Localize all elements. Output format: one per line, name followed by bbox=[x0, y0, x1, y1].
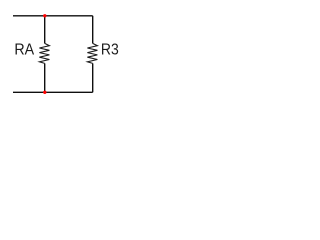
svg-text:R3: R3 bbox=[101, 42, 119, 59]
wire top horizontal bbox=[13, 15, 93, 17]
junction node bottom bbox=[43, 91, 46, 94]
wire right branch bottom lead bbox=[92, 63, 94, 92]
resistor RA bbox=[39, 43, 49, 63]
resistor R3 bbox=[87, 43, 97, 63]
svg-text:RA: RA bbox=[14, 41, 34, 59]
wire left branch top lead bbox=[44, 16, 46, 44]
junction node top bbox=[43, 14, 46, 17]
wire right branch top lead bbox=[92, 16, 94, 44]
wire bottom horizontal bbox=[13, 91, 93, 93]
wire left branch bottom lead bbox=[44, 63, 46, 92]
